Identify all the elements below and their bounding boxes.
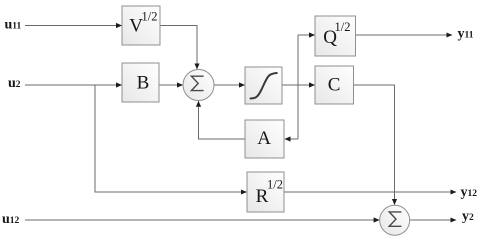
svg-text:1/2: 1/2: [142, 10, 158, 24]
svg-text:1/2: 1/2: [267, 178, 283, 192]
svg-text:B: B: [137, 73, 150, 94]
svg-text:C: C: [328, 75, 341, 96]
svg-text:y11: y11: [458, 27, 474, 42]
svg-text:y12: y12: [461, 185, 478, 200]
svg-text:A: A: [257, 128, 271, 149]
svg-text:u2: u2: [8, 76, 21, 91]
svg-text:1/2: 1/2: [335, 20, 351, 34]
svg-text:u12: u12: [2, 212, 20, 227]
svg-text:y2: y2: [462, 209, 474, 224]
svg-text:u11: u11: [5, 17, 22, 32]
